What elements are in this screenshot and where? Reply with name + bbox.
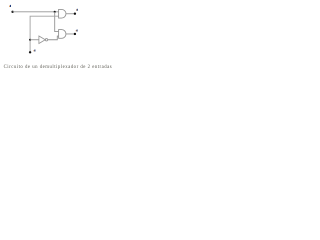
- node S input label: [34, 50, 36, 52]
- AND gate U2 body: [59, 30, 66, 39]
- node S input terminal dot: [29, 51, 31, 53]
- node E input terminal dot: [11, 11, 13, 13]
- wire E branch down to AND gate U2: [55, 12, 59, 32]
- node E input label: [9, 5, 11, 7]
- junction dot on S wire: [29, 39, 31, 41]
- node output O1 label: [76, 9, 78, 11]
- wire S junction to NOT gate input: [30, 39, 39, 41]
- svg-text:Circuito de un demultiplexador: Circuito de un demultiplexador de 2 entr…: [4, 65, 113, 70]
- wire NOT output to AND gate U2: [48, 36, 59, 40]
- node output O1 dot: [74, 13, 76, 15]
- node output O2 label: [76, 30, 78, 32]
- node output O2 dot: [74, 33, 76, 35]
- wire E horizontal to AND gate U1: [13, 11, 59, 13]
- wire U2 output: [66, 33, 74, 35]
- wire U1 output: [66, 13, 74, 15]
- NOT gate U3 triangle: [39, 36, 45, 44]
- wire S vertical and top horizontal to AND gate U1: [30, 16, 58, 52]
- AND gate U1 body: [59, 9, 66, 18]
- NOT gate U3 bubble: [45, 39, 47, 41]
- junction dot on E wire: [54, 11, 56, 13]
